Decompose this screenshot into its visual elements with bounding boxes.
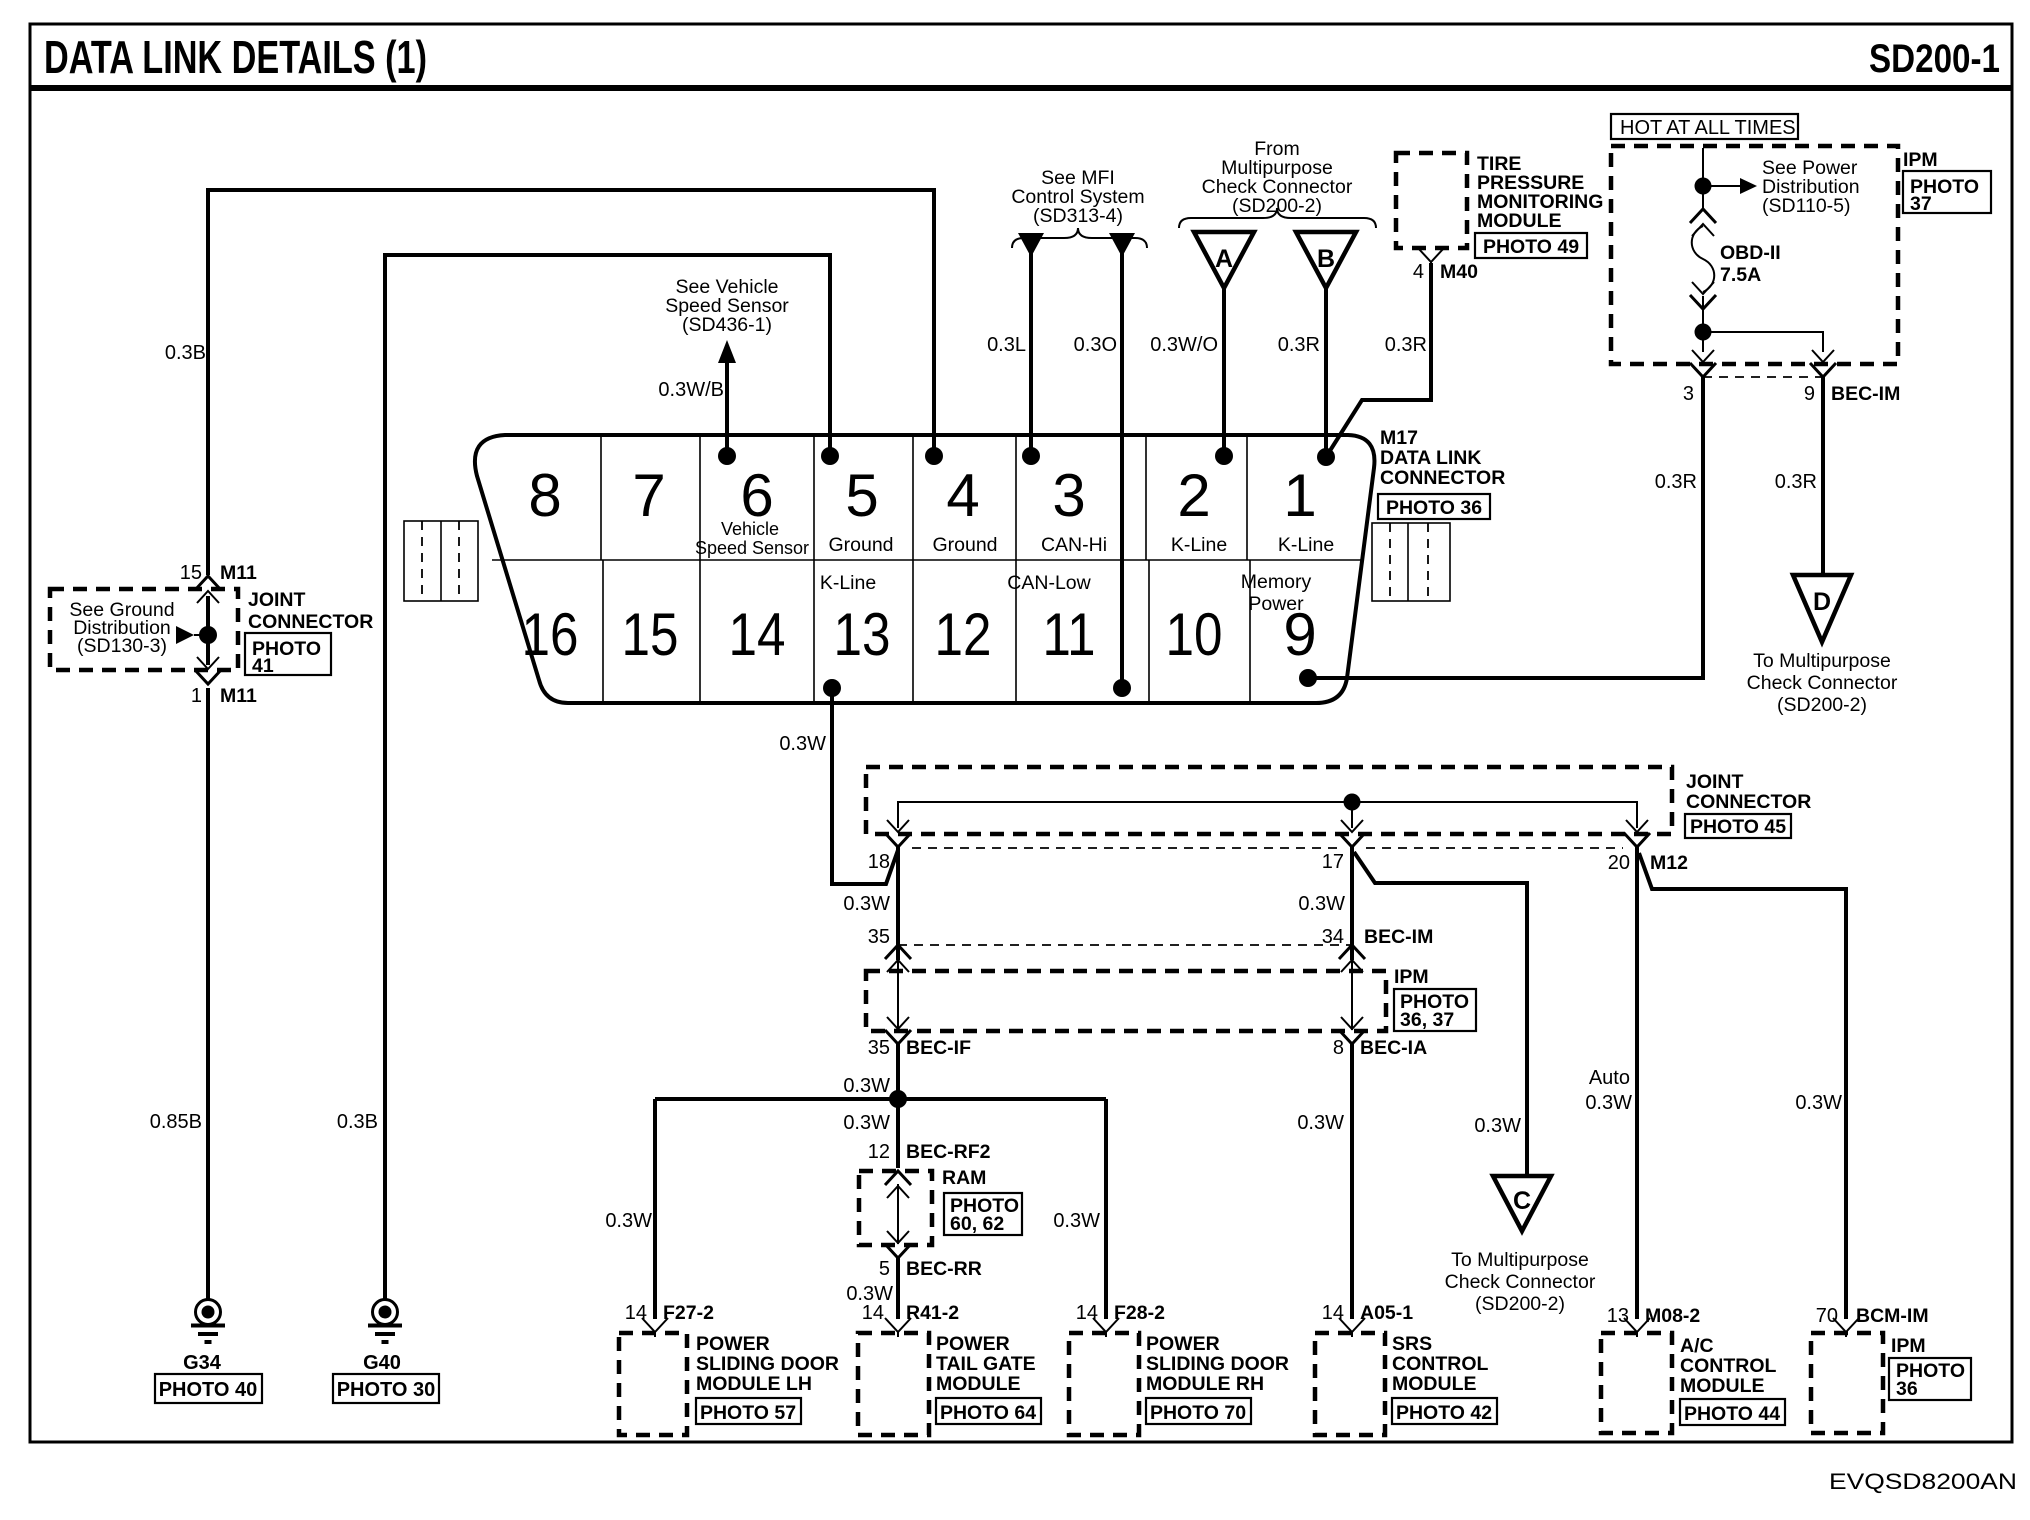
svg-text:0.3W: 0.3W [843,1112,890,1134]
PHOTO 36 box bottom right [1889,1358,1971,1400]
svg-text:0.3W: 0.3W [1795,1092,1842,1114]
wire 0.3W pin18 to BEC-IF [896,847,900,960]
title separator rule [30,85,2012,91]
svg-text:PHOTO 45: PHOTO 45 [1690,816,1786,838]
power sliding door module RH dashed box [1069,1333,1139,1435]
joint connector M11 pin 1 symbol [195,657,221,684]
triangle connector A [1194,232,1254,288]
IPM dashed box middle [866,971,1386,1031]
svg-text:36, 37: 36, 37 [1400,1009,1454,1031]
power tail gate module dashed box [858,1333,929,1435]
junction dot below fuse [1695,324,1712,341]
PHOTO 42 box [1392,1398,1497,1424]
svg-text:BEC-IA: BEC-IA [1360,1037,1427,1059]
svg-text:14: 14 [1322,1302,1344,1324]
svg-text:Vehicle: Vehicle [721,519,779,539]
wire 0.3W/O to DLC pin 2 [1222,288,1226,456]
data link connector M17 outline [475,435,1375,703]
joint connector bus wire [898,802,1637,828]
svg-text:8: 8 [1333,1037,1344,1059]
svg-text:41: 41 [252,655,274,677]
svg-text:M11: M11 [220,685,257,707]
svg-text:MODULE: MODULE [1477,210,1562,232]
connector F28-2 fork [1093,1318,1119,1337]
svg-text:0.3W: 0.3W [843,1075,890,1097]
wire into IPM from top [1702,148,1704,209]
svg-text:15: 15 [622,601,679,668]
svg-text:POWER: POWER [1146,1333,1220,1355]
svg-text:16: 16 [522,601,579,668]
wire from pin20 down to A/C module [1635,847,1639,1319]
ground G34 [191,1300,225,1343]
wire 0.3W/B from DLC pin 6 [725,360,729,456]
svg-text:2: 2 [1177,462,1210,529]
svg-text:IPM: IPM [1903,149,1938,171]
svg-text:IPM: IPM [1394,966,1429,988]
ground G40 [368,1300,402,1343]
svg-text:RAM: RAM [942,1167,986,1189]
pin 13 dot [823,679,841,697]
junction dot [889,1090,907,1108]
svg-text:BEC-RR: BEC-RR [906,1258,982,1280]
wire branch to BCM-IM [1639,853,1846,1319]
svg-text:CONTROL: CONTROL [1680,1355,1776,1377]
svg-text:K-Line: K-Line [820,572,876,594]
svg-text:(SD200-2): (SD200-2) [1777,694,1867,716]
PHOTO 45 box [1685,814,1791,838]
BEC pin 35 symbol [885,945,911,972]
pin 4 dot [925,447,943,465]
wire 0.3W to power sliding door LH [653,1099,657,1319]
svg-text:5: 5 [879,1258,890,1280]
arrow from MFI (CAN-Low) [1109,233,1135,257]
M17 cell dividers bottom row [603,560,1250,703]
svg-text:SLIDING DOOR: SLIDING DOOR [696,1353,839,1375]
pin 6 dot [718,447,736,465]
power sliding door module LH dashed box [619,1333,687,1435]
junction dot on M11 wire [199,626,217,644]
wire 0.3R from M40 to DLC pin 1 [1326,263,1431,457]
wire 0.3L to DLC pin 3 [1029,252,1033,456]
svg-text:Ground: Ground [932,534,997,556]
svg-text:0.85B: 0.85B [150,1111,202,1133]
branch to BEC-IM pin 9 [1703,332,1823,352]
svg-text:0.3W: 0.3W [843,893,890,915]
svg-text:F27-2: F27-2 [663,1302,714,1324]
svg-text:14: 14 [862,1302,884,1324]
svg-text:PHOTO 36: PHOTO 36 [1386,497,1482,519]
connector pin 9 symbol [1810,350,1836,377]
BEC pin 34 symbol [1339,945,1365,972]
svg-text:18: 18 [868,851,890,873]
svg-text:M40: M40 [1440,261,1478,283]
svg-text:BEC-IM: BEC-IM [1364,926,1433,948]
svg-text:CONTROL: CONTROL [1392,1353,1488,1375]
svg-text:JOINT: JOINT [1686,771,1744,793]
svg-text:MODULE: MODULE [1392,1373,1477,1395]
svg-text:0.3W: 0.3W [1297,1112,1344,1134]
svg-text:7.5A: 7.5A [1720,264,1761,286]
svg-text:M08-2: M08-2 [1645,1305,1700,1327]
svg-text:15: 15 [180,562,202,584]
PHOTO 57 box [696,1398,801,1424]
svg-text:20: 20 [1608,852,1630,874]
BEC-IF pin 35 symbol [885,1017,911,1044]
svg-text:PHOTO 30: PHOTO 30 [337,1379,436,1401]
svg-text:4: 4 [946,462,979,529]
wire 0.3W to BEC-RF2 [896,1099,900,1168]
pin 1 dot [1317,448,1335,466]
connector BCM-IM pin 70 fork [1833,1318,1859,1337]
junction dot [1695,178,1712,195]
PHOTO 44 box [1680,1399,1785,1425]
svg-text:K-Line: K-Line [1171,534,1227,556]
joint connector M11 dashed box [50,589,238,670]
svg-text:0.3W: 0.3W [1585,1092,1632,1114]
branch wire to door modules [655,1097,1106,1101]
svg-text:PHOTO 64: PHOTO 64 [940,1402,1036,1424]
wire 0.3W pin17 to BEC-IM [1350,847,1354,960]
M17 cell dividers top row [601,435,1247,560]
pin 3 dot [1022,447,1040,465]
svg-text:12: 12 [935,601,992,668]
svg-text:B: B [1317,245,1335,273]
tire pressure monitoring module dashed box [1396,153,1467,248]
svg-text:DATA LINK: DATA LINK [1380,447,1481,469]
BEC-IA pin 8 symbol [1339,1017,1365,1044]
wire 0.3R from pin 3 to DLC pin 9 [1308,377,1703,678]
triangle connector B [1296,232,1356,288]
pin 11 dot [1113,679,1131,697]
svg-text:BEC-RF2: BEC-RF2 [906,1141,991,1163]
svg-text:TAIL GATE: TAIL GATE [936,1353,1036,1375]
svg-text:37: 37 [1910,193,1932,215]
arrow to ground distribution [176,626,194,644]
PHOTO 36 box [1378,494,1490,519]
svg-text:To Multipurpose: To Multipurpose [1753,650,1891,672]
PHOTO 40 box [155,1374,262,1403]
connector F27-2 fork [642,1318,668,1337]
svg-text:0.3W: 0.3W [1053,1210,1100,1232]
svg-text:0.3R: 0.3R [1655,471,1697,493]
svg-text:0.3O: 0.3O [1074,334,1117,356]
svg-text:DATA LINK DETAILS (1): DATA LINK DETAILS (1) [44,31,427,83]
svg-text:MODULE LH: MODULE LH [696,1373,812,1395]
svg-text:17: 17 [1322,851,1344,873]
svg-text:4: 4 [1413,261,1424,283]
svg-text:(SD130-3): (SD130-3) [77,635,167,657]
pin 9 dot [1299,669,1317,687]
svg-text:0.3R: 0.3R [1385,334,1427,356]
connector A05-1 fork [1339,1318,1365,1337]
svg-text:0.3B: 0.3B [337,1111,378,1133]
svg-text:PHOTO 42: PHOTO 42 [1396,1402,1492,1424]
svg-text:10: 10 [1166,601,1223,668]
svg-text:14: 14 [1076,1302,1098,1324]
M12 pin 17 symbol [1339,820,1365,847]
PHOTO 30 box [333,1374,439,1403]
PHOTO 36,37 box [1394,989,1476,1031]
arrow to vehicle speed sensor [718,340,736,363]
svg-text:K-Line: K-Line [1278,534,1334,556]
wire 0.3B from DLC pin 5 to ground G40 [385,255,830,1299]
PHOTO 60, 62 box [944,1193,1022,1235]
triangle connector C [1493,1176,1551,1231]
svg-text:8: 8 [528,462,561,529]
IPM dashed box top right [1611,146,1898,364]
svg-text:0.3W/B: 0.3W/B [658,379,724,401]
svg-text:PHOTO 57: PHOTO 57 [700,1402,796,1424]
M12 pin 20 symbol [1624,820,1650,847]
BEC-RR pin 5 symbol [885,1231,911,1258]
svg-text:MODULE: MODULE [936,1373,1021,1395]
PHOTO 41 box [245,633,331,675]
svg-text:M17: M17 [1380,427,1418,449]
M17 middle divider [492,559,1363,561]
fuse OBD-II 7.5A [1690,209,1781,332]
wire 0.3R to DLC pin 1 [1324,288,1328,457]
svg-text:34: 34 [1322,926,1344,948]
svg-text:MODULE RH: MODULE RH [1146,1373,1264,1395]
bus junction dot [1344,794,1361,811]
svg-text:3: 3 [1683,383,1694,405]
svg-text:(SD110-5): (SD110-5) [1762,195,1851,217]
svg-text:12: 12 [868,1141,890,1163]
svg-text:CAN-Low: CAN-Low [1007,572,1091,594]
svg-text:PHOTO 70: PHOTO 70 [1150,1402,1246,1424]
svg-text:1: 1 [191,685,202,707]
svg-text:CONNECTOR: CONNECTOR [1380,467,1505,489]
svg-text:3: 3 [1052,462,1085,529]
wires through IPM box [898,958,1352,1030]
svg-text:70: 70 [1816,1305,1838,1327]
svg-text:60, 62: 60, 62 [950,1213,1004,1235]
svg-text:13: 13 [834,601,891,668]
svg-text:C: C [1513,1187,1531,1215]
svg-text:0.3W: 0.3W [779,733,826,755]
svg-text:Memory: Memory [1241,571,1312,593]
BEC-RF2 pin 12 symbol [885,1171,911,1198]
wire 0.3W from BEC-IF to junction [896,1044,900,1099]
svg-text:PHOTO 44: PHOTO 44 [1684,1403,1780,1425]
IPM module dashed box bottom right [1811,1333,1883,1433]
M17 left tab [404,521,478,601]
svg-text:MODULE: MODULE [1680,1375,1765,1397]
svg-text:M11: M11 [220,562,257,584]
wire 0.3W from BEC-IA to SRS module [1350,1044,1354,1319]
M17 right tab [1372,523,1450,601]
pin 2 dot [1215,447,1233,465]
dashed connector line [1703,376,1823,378]
SRS control module dashed box [1315,1333,1385,1435]
svg-text:(SD313-4): (SD313-4) [1033,205,1123,227]
joint connector M12 dashed box [866,767,1672,834]
connector pin 3 symbol [1690,350,1716,377]
M12 dashed connector line [912,847,1623,849]
svg-text:(SD436-1): (SD436-1) [682,314,772,336]
svg-text:9: 9 [1804,383,1815,405]
svg-text:5: 5 [845,462,878,529]
svg-text:0.3R: 0.3R [1775,471,1817,493]
A/C control module dashed box [1601,1333,1672,1433]
wire 0.3W from DLC pin 13 [832,688,898,884]
svg-text:36: 36 [1896,1378,1918,1400]
svg-text:Auto: Auto [1589,1067,1630,1089]
svg-text:D: D [1813,588,1831,616]
arrow to power distribution [1711,185,1740,187]
svg-text:F28-2: F28-2 [1114,1302,1165,1324]
wire 0.3R from pin 9 to triangle D [1821,377,1825,575]
svg-text:Ground: Ground [828,534,893,556]
PHOTO 64 box [936,1398,1041,1424]
svg-text:0.3W: 0.3W [1474,1115,1521,1137]
svg-text:0.3W/O: 0.3W/O [1150,334,1218,356]
arrow from MFI (CAN-Hi) [1018,233,1044,257]
wire 0.3B/0.85B from DLC pin 4 to ground G34 [208,190,934,575]
svg-text:13: 13 [1607,1305,1629,1327]
PHOTO 70 box [1146,1398,1251,1424]
brace over A and B [1179,208,1376,228]
svg-text:35: 35 [868,926,890,948]
svg-text:14: 14 [625,1302,647,1324]
svg-text:A/C: A/C [1680,1335,1714,1357]
PHOTO 49 box [1475,233,1587,258]
svg-text:0.3W: 0.3W [605,1210,652,1232]
svg-text:BEC-IM: BEC-IM [1831,383,1900,405]
svg-text:0.3W: 0.3W [1298,893,1345,915]
svg-text:11: 11 [1043,601,1096,668]
svg-text:POWER: POWER [696,1333,770,1355]
svg-text:OBD-II: OBD-II [1720,242,1781,264]
wire from pin17 to triangle C [1354,852,1527,1176]
svg-text:Power: Power [1248,593,1304,615]
svg-text:0.3L: 0.3L [987,334,1026,356]
M12 pin 18 symbol [885,820,911,847]
svg-text:7: 7 [632,462,665,529]
svg-text:Check Connector: Check Connector [1445,1271,1596,1293]
svg-text:CONNECTOR: CONNECTOR [1686,791,1811,813]
pin 5 dot [821,447,839,465]
svg-text:R41-2: R41-2 [906,1302,959,1324]
svg-text:G40: G40 [363,1352,401,1374]
triangle connector D [1793,575,1851,642]
wire 0.3O to DLC pin 11 [1120,252,1124,687]
svg-text:Check Connector: Check Connector [1747,672,1898,694]
svg-text:A: A [1215,245,1233,273]
svg-text:(SD200-2): (SD200-2) [1475,1293,1565,1315]
svg-text:SLIDING DOOR: SLIDING DOOR [1146,1353,1289,1375]
svg-text:IPM: IPM [1891,1335,1926,1357]
PHOTO 37 box [1903,171,1991,213]
BEC connector dashed line 35/34 [898,944,1352,946]
wire through RAM box [897,1184,899,1244]
svg-text:SD200-1: SD200-1 [1869,37,2000,81]
svg-text:1: 1 [1283,462,1316,529]
HOT AT ALL TIMES box [1611,114,1798,139]
wire 0.3W to power tail gate module [896,1258,900,1319]
svg-text:BCM-IM: BCM-IM [1856,1305,1929,1327]
connector M40 pin 4 fork [1418,248,1444,267]
svg-text:To Multipurpose: To Multipurpose [1451,1249,1589,1271]
svg-text:35: 35 [868,1037,890,1059]
svg-text:PHOTO 40: PHOTO 40 [159,1379,258,1401]
svg-text:0.3B: 0.3B [165,342,206,364]
svg-text:14: 14 [729,601,786,668]
svg-text:(SD200-2): (SD200-2) [1232,195,1322,217]
connector R41-2 fork [885,1318,911,1337]
svg-text:HOT AT ALL TIMES: HOT AT ALL TIMES [1620,117,1796,139]
svg-text:CONNECTOR: CONNECTOR [248,611,373,633]
joint connector M11 pin 15 symbol [195,576,221,603]
wire 0.3W to power sliding door RH [1104,1099,1108,1319]
svg-text:BEC-IF: BEC-IF [906,1037,971,1059]
svg-text:Speed Sensor: Speed Sensor [695,538,809,558]
RAM dashed box [859,1171,932,1245]
svg-text:CAN-Hi: CAN-Hi [1041,534,1107,556]
svg-text:0.3R: 0.3R [1278,334,1320,356]
brace over MFI wires [1012,228,1147,248]
svg-text:JOINT: JOINT [248,589,306,611]
svg-text:POWER: POWER [936,1333,1010,1355]
svg-text:PHOTO 49: PHOTO 49 [1483,236,1579,258]
svg-text:M12: M12 [1650,852,1688,874]
svg-text:EVQSD8200AN: EVQSD8200AN [1829,1469,2017,1494]
connector M08-2 fork [1624,1318,1650,1337]
svg-text:A05-1: A05-1 [1360,1302,1413,1324]
svg-text:SRS: SRS [1392,1333,1432,1355]
svg-text:G34: G34 [183,1352,222,1374]
